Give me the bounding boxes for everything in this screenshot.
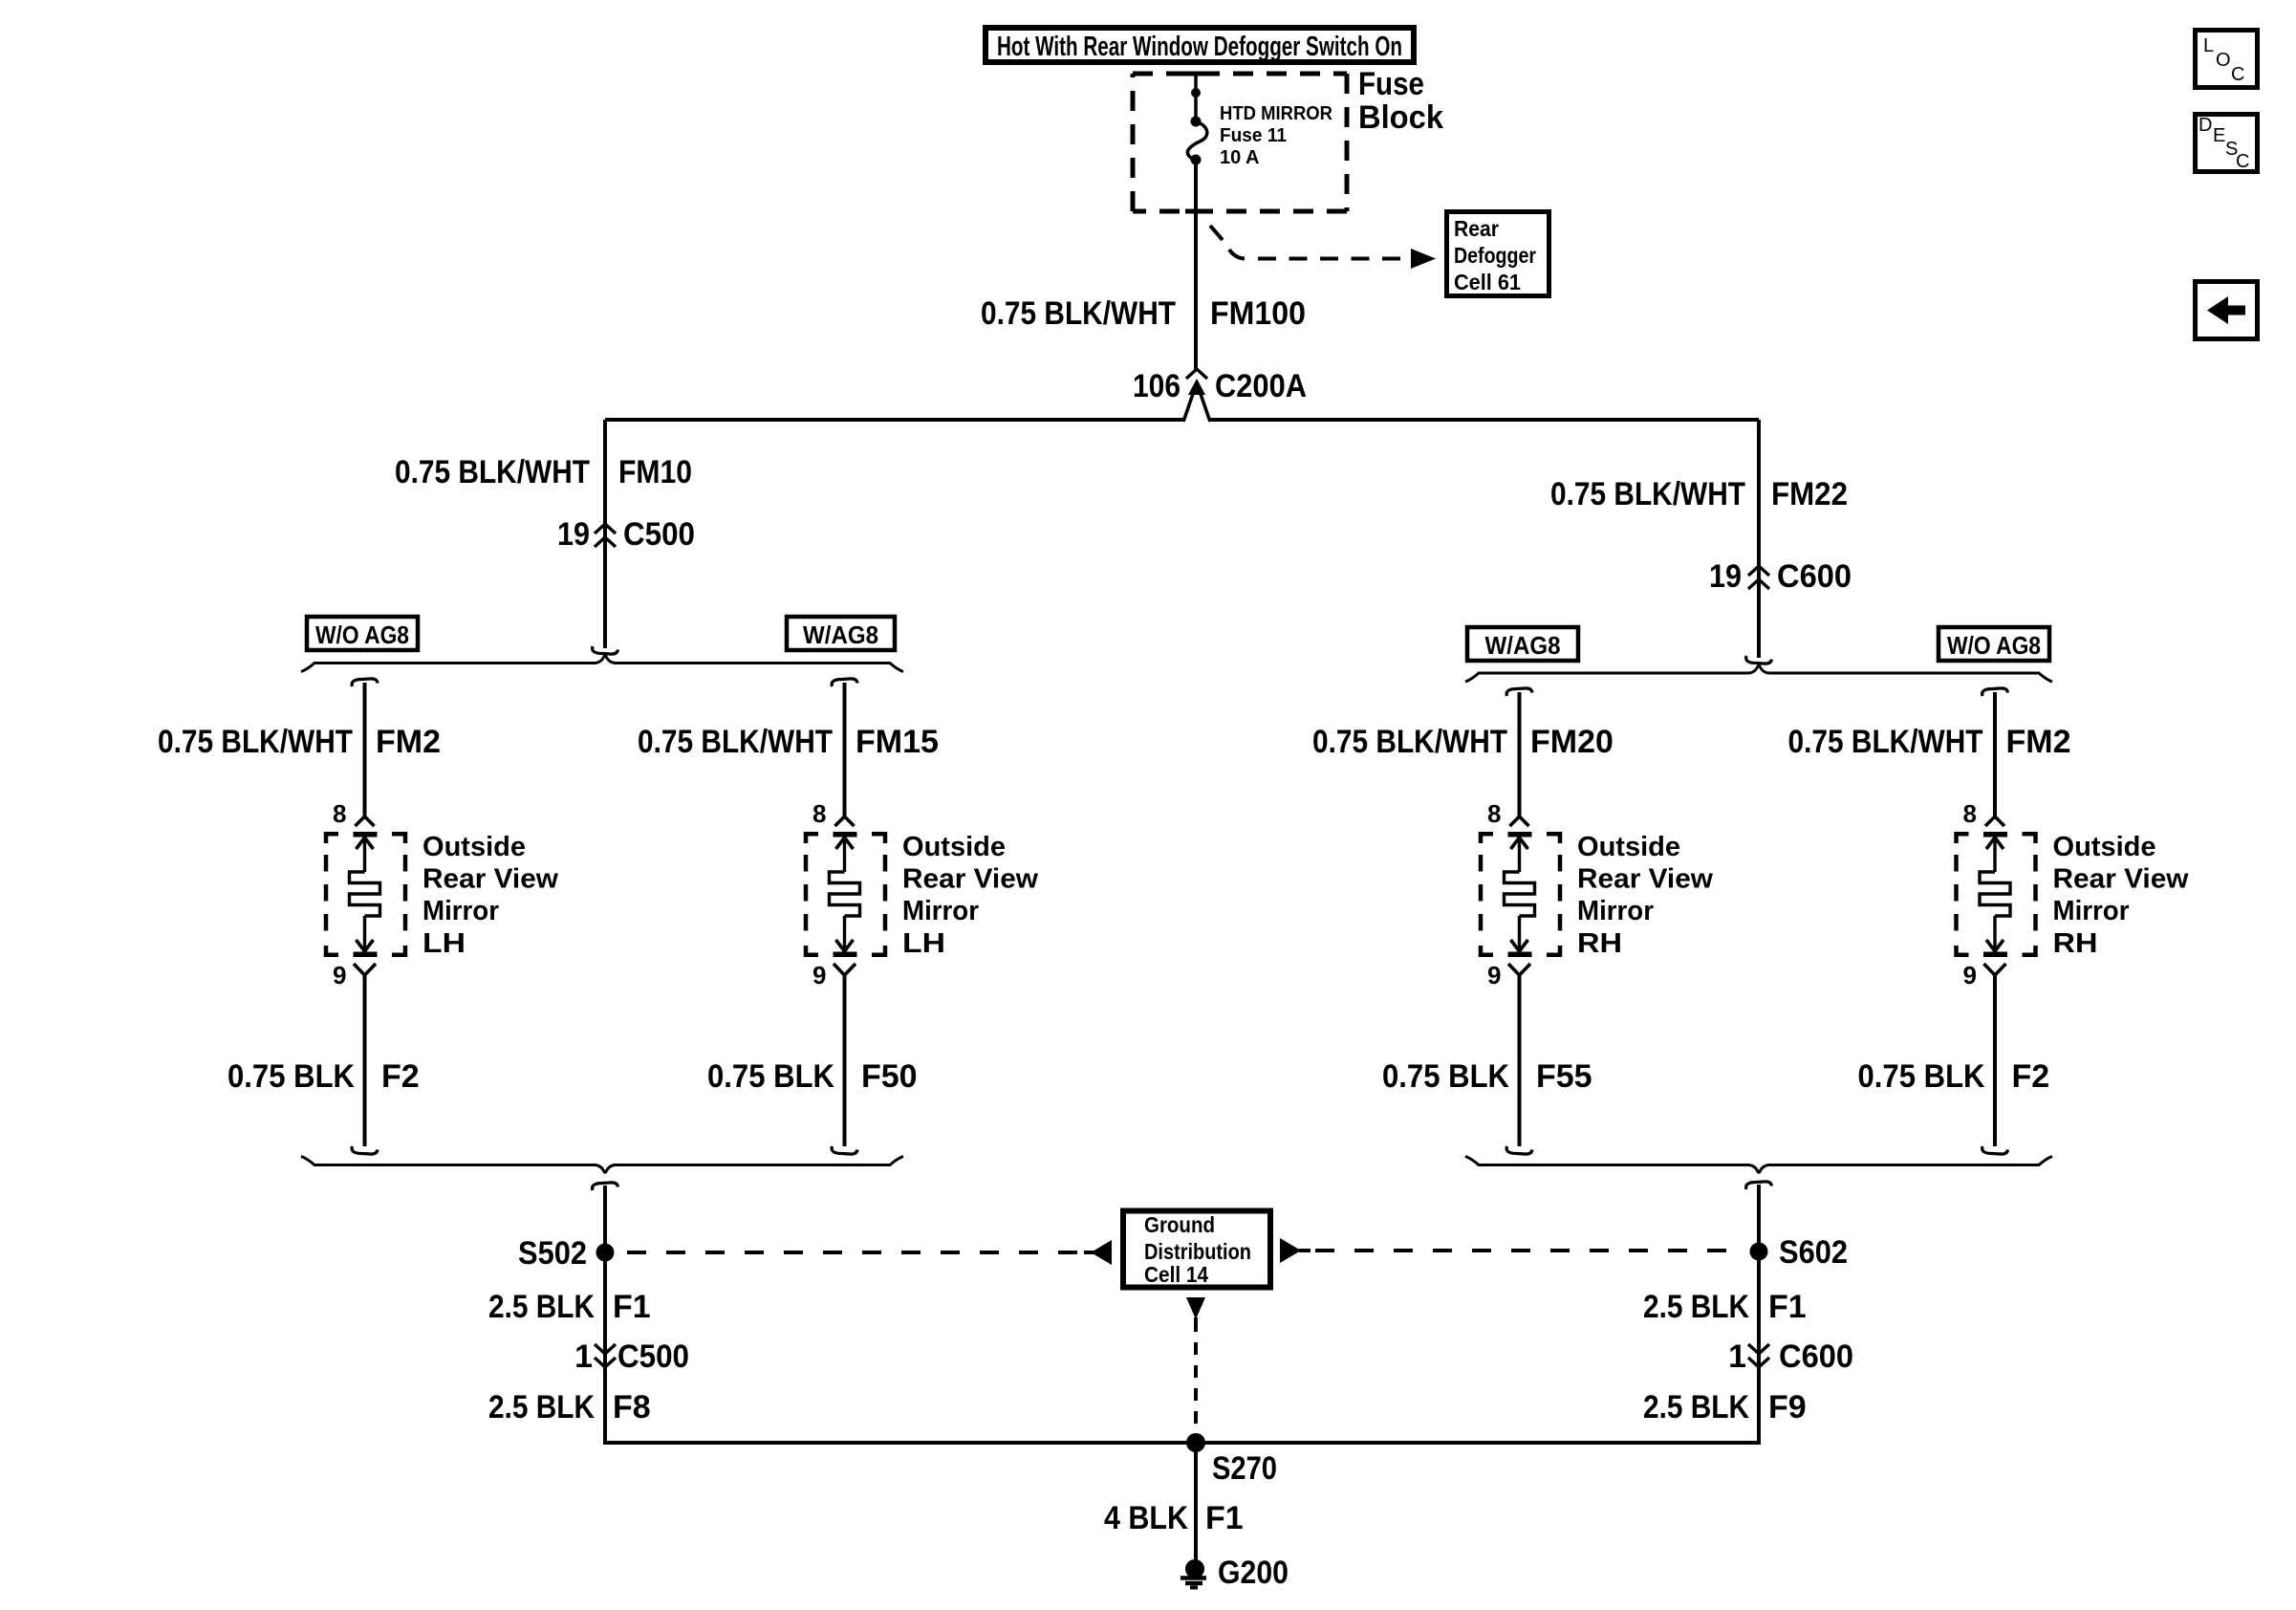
pin 9 terminal xyxy=(834,964,856,975)
svg-text:O: O xyxy=(2216,50,2231,71)
pin 9 terminal xyxy=(354,964,376,975)
svg-text:FM2: FM2 xyxy=(376,724,441,760)
svg-text:W/O AG8: W/O AG8 xyxy=(315,620,409,649)
bottom bus wire xyxy=(603,1441,1761,1445)
svg-text:Mirror: Mirror xyxy=(2053,896,2130,926)
arrowhead to rear defogger box xyxy=(1411,249,1436,269)
dashed link ground distribution down to S270 xyxy=(1186,1297,1205,1319)
svg-text:0.75 BLK/WHT: 0.75 BLK/WHT xyxy=(638,724,833,760)
svg-text:Rear View: Rear View xyxy=(1577,864,1713,895)
wire from title box into fuse block xyxy=(1194,74,1198,121)
svg-text:Distribution: Distribution xyxy=(1144,1239,1251,1264)
svg-text:C600: C600 xyxy=(1779,1338,1853,1375)
outside rear view mirror dashed outline xyxy=(326,834,338,843)
heater element xyxy=(354,832,378,838)
pin 8 terminal xyxy=(835,816,855,826)
svg-text:9: 9 xyxy=(333,961,346,990)
splice S602 xyxy=(1746,1182,1772,1189)
svg-text:0.75 BLK: 0.75 BLK xyxy=(1382,1058,1509,1095)
svg-text:Rear View: Rear View xyxy=(2053,864,2189,895)
svg-text:Outside: Outside xyxy=(1577,832,1680,862)
svg-text:2.5 BLK: 2.5 BLK xyxy=(1643,1289,1749,1325)
svg-text:W/AG8: W/AG8 xyxy=(1485,631,1561,660)
svg-text:Outside: Outside xyxy=(2053,832,2156,862)
svg-text:C600: C600 xyxy=(1777,558,1852,595)
svg-text:9: 9 xyxy=(1487,961,1501,990)
svg-text:8: 8 xyxy=(1487,799,1501,828)
connector C500 pin 19 xyxy=(595,524,616,533)
svg-text:D: D xyxy=(2199,115,2212,136)
rear defogger cell 61 box xyxy=(1447,212,1549,296)
fuse block dashed outline xyxy=(1133,72,1347,76)
heater element xyxy=(1983,832,2007,838)
svg-text:W/O AG8: W/O AG8 xyxy=(1947,631,2041,660)
top-left option brace xyxy=(301,656,903,672)
svg-text:RH: RH xyxy=(2053,928,2098,959)
svg-text:FM10: FM10 xyxy=(618,454,692,490)
outside rear view mirror dashed outline xyxy=(1481,834,1493,843)
option box W/AG8 (left inner) xyxy=(787,617,895,650)
svg-text:E: E xyxy=(2213,125,2225,146)
pin 8 terminal xyxy=(1985,816,2004,826)
svg-text:G200: G200 xyxy=(1218,1555,1289,1591)
svg-text:2.5 BLK: 2.5 BLK xyxy=(488,1389,595,1425)
svg-text:Rear View: Rear View xyxy=(902,864,1038,895)
svg-text:0.75 BLK/WHT: 0.75 BLK/WHT xyxy=(1312,724,1507,760)
svg-text:0.75 BLK: 0.75 BLK xyxy=(1858,1058,1985,1095)
svg-text:Cell 14: Cell 14 xyxy=(1144,1262,1208,1287)
svg-text:8: 8 xyxy=(1963,799,1977,828)
right feeder wire FM22 xyxy=(1757,420,1761,658)
connector C600 pin 19 xyxy=(1748,566,1769,576)
svg-text:S602: S602 xyxy=(1779,1234,1848,1271)
svg-text:Outside: Outside xyxy=(902,832,1006,862)
heater element xyxy=(1508,832,1532,838)
svg-text:8: 8 xyxy=(333,799,346,828)
fuse HTD MIRROR Fuse 11 10A xyxy=(1191,88,1201,98)
svg-text:RH: RH xyxy=(1577,928,1622,959)
svg-text:Rear View: Rear View xyxy=(422,864,558,895)
svg-text:Block: Block xyxy=(1358,99,1443,136)
svg-text:0.75 BLK/WHT: 0.75 BLK/WHT xyxy=(981,295,1176,332)
svg-text:C: C xyxy=(2236,151,2249,172)
svg-text:Ground: Ground xyxy=(1144,1212,1215,1237)
splice S502 xyxy=(593,1183,618,1190)
svg-text:F1: F1 xyxy=(1205,1500,1244,1536)
svg-text:FM22: FM22 xyxy=(1771,476,1848,512)
svg-text:F8: F8 xyxy=(613,1389,651,1425)
wire label 0.75 BLK F2 xyxy=(1993,975,1997,1146)
svg-text:C: C xyxy=(2231,64,2244,85)
svg-text:Fuse: Fuse xyxy=(1358,66,1424,102)
svg-text:FM20: FM20 xyxy=(1530,724,1614,760)
pin 9 terminal xyxy=(1984,964,2006,975)
svg-text:Defogger: Defogger xyxy=(1454,243,1536,268)
svg-text:F55: F55 xyxy=(1536,1058,1592,1095)
svg-text:Mirror: Mirror xyxy=(902,896,979,926)
svg-text:Fuse 11: Fuse 11 xyxy=(1220,125,1287,146)
svg-text:L: L xyxy=(2203,35,2214,56)
left feeder wire FM10 xyxy=(603,420,607,648)
svg-text:C200A: C200A xyxy=(1215,368,1307,404)
bottom-left option brace xyxy=(301,1157,903,1173)
svg-text:C500: C500 xyxy=(623,516,695,553)
svg-text:Rear: Rear xyxy=(1454,216,1499,241)
svg-text:19: 19 xyxy=(1709,558,1742,595)
connector C200A pin 106 xyxy=(1186,369,1207,379)
dashed link ground distribution to S602 xyxy=(1280,1238,1301,1263)
heater element xyxy=(834,832,857,838)
svg-text:0.75 BLK/WHT: 0.75 BLK/WHT xyxy=(1788,724,1983,760)
svg-text:10 A: 10 A xyxy=(1220,147,1260,168)
connector C500 pin 1 (bottom) xyxy=(595,1344,616,1354)
ground distribution cell 14 box xyxy=(1123,1211,1270,1288)
wire label 0.75 BLK F2 xyxy=(363,975,367,1146)
svg-text:Hot With Rear Window Defogger: Hot With Rear Window Defogger Switch On xyxy=(997,32,1402,62)
DESC button xyxy=(2196,115,2258,172)
svg-text:F50: F50 xyxy=(861,1058,918,1095)
branch wire FM2 xyxy=(1982,688,2008,696)
svg-text:F1: F1 xyxy=(1768,1289,1807,1325)
branch wire FM20 xyxy=(1506,688,1532,696)
svg-text:S502: S502 xyxy=(518,1235,587,1272)
svg-text:F9: F9 xyxy=(1768,1389,1807,1425)
option box W/O AG8 (right outer) xyxy=(1939,627,2049,661)
svg-text:LH: LH xyxy=(422,928,466,959)
branch wire FM15 xyxy=(832,679,857,686)
splice S270 xyxy=(1186,1433,1205,1452)
top-right option brace xyxy=(1465,665,2052,682)
svg-text:0.75 BLK: 0.75 BLK xyxy=(707,1058,834,1095)
top bus wire xyxy=(605,418,1185,422)
svg-text:19: 19 xyxy=(557,516,590,553)
svg-text:FM2: FM2 xyxy=(2006,724,2071,760)
svg-text:0.75 BLK/WHT: 0.75 BLK/WHT xyxy=(158,724,353,760)
svg-text:Cell 61: Cell 61 xyxy=(1454,270,1521,294)
back arrow button xyxy=(2196,282,2258,339)
svg-text:0.75 BLK/WHT: 0.75 BLK/WHT xyxy=(1550,476,1745,512)
outside rear view mirror dashed outline xyxy=(806,834,818,843)
svg-text:F2: F2 xyxy=(381,1058,420,1095)
ground G200 xyxy=(1185,1559,1204,1578)
branch wire FM2 xyxy=(352,679,378,686)
svg-text:S270: S270 xyxy=(1212,1450,1277,1487)
svg-text:1: 1 xyxy=(574,1338,593,1375)
svg-text:Mirror: Mirror xyxy=(422,896,499,926)
pin 8 terminal xyxy=(356,816,375,826)
svg-text:Outside: Outside xyxy=(422,832,526,862)
svg-text:2.5 BLK: 2.5 BLK xyxy=(488,1289,595,1325)
wire from fuse to C200A xyxy=(1194,160,1198,370)
connector C600 pin 1 (bottom) xyxy=(1748,1344,1769,1354)
outside rear view mirror dashed outline xyxy=(1957,834,1969,843)
LOC button xyxy=(2196,31,2258,88)
dashed option branch to rear defogger xyxy=(1210,226,1223,240)
svg-text:Mirror: Mirror xyxy=(1577,896,1654,926)
svg-text:0.75 BLK/WHT: 0.75 BLK/WHT xyxy=(395,454,590,490)
svg-text:C500: C500 xyxy=(617,1338,689,1375)
wire label 0.75 BLK F50 xyxy=(843,975,847,1146)
pin 8 terminal xyxy=(1510,816,1529,826)
dashed link S502 to ground distribution xyxy=(627,1251,1082,1254)
svg-text:FM15: FM15 xyxy=(856,724,939,760)
svg-text:W/AG8: W/AG8 xyxy=(803,620,878,649)
svg-text:4 BLK: 4 BLK xyxy=(1104,1500,1188,1536)
power feed title box xyxy=(986,28,1414,62)
svg-text:F2: F2 xyxy=(2012,1058,2050,1095)
svg-text:2.5 BLK: 2.5 BLK xyxy=(1643,1389,1749,1425)
svg-text:9: 9 xyxy=(812,961,826,990)
svg-text:9: 9 xyxy=(1963,961,1977,990)
svg-text:1: 1 xyxy=(1728,1338,1746,1375)
svg-text:FM100: FM100 xyxy=(1210,295,1306,332)
svg-text:LH: LH xyxy=(902,928,945,959)
bottom-right option brace xyxy=(1465,1157,2052,1173)
wire S270 to G200 xyxy=(1194,1443,1198,1560)
svg-text:106: 106 xyxy=(1133,368,1180,404)
svg-text:F1: F1 xyxy=(613,1289,651,1325)
wire label 0.75 BLK F55 xyxy=(1518,975,1522,1146)
option box W/AG8 (right inner) xyxy=(1467,627,1578,661)
pin 9 terminal xyxy=(1508,964,1530,975)
svg-text:HTD MIRROR: HTD MIRROR xyxy=(1220,103,1333,124)
svg-text:8: 8 xyxy=(812,799,826,828)
svg-text:0.75 BLK: 0.75 BLK xyxy=(227,1058,355,1095)
option box W/O AG8 (left outer) xyxy=(307,617,418,650)
